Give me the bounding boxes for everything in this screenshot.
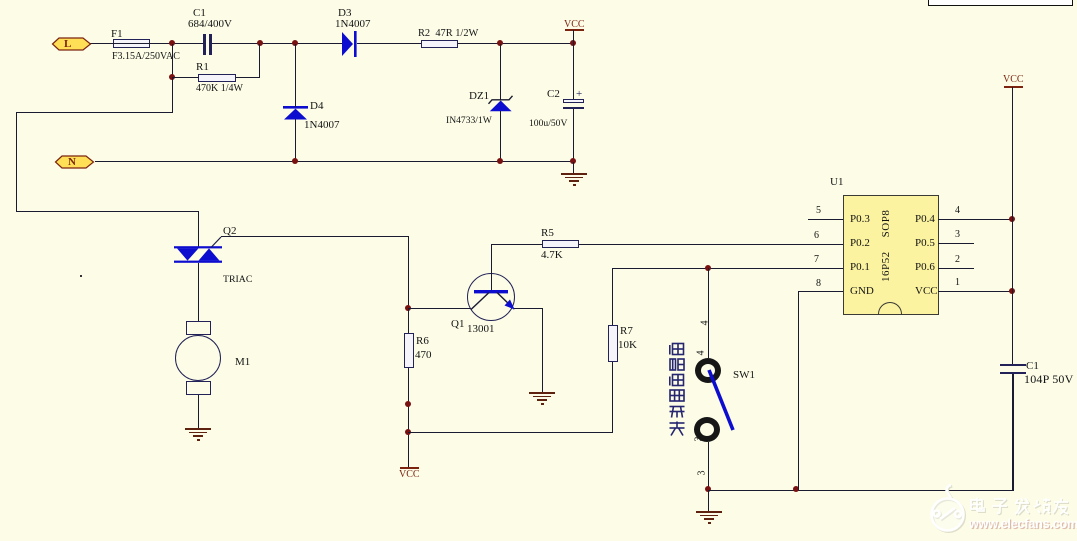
power VCC bottom: [400, 467, 419, 469]
label P0.1: [850, 262, 870, 273]
wire: triac gate diagonal: [211, 236, 223, 248]
resistor R6: [404, 333, 414, 368]
label SOP8 rotated: [881, 209, 892, 238]
wire: junction to Q1: [408, 308, 471, 309]
node: junction R1 right branch: [257, 40, 263, 46]
IC pin2 stub: [938, 268, 974, 269]
wire: gate horizontal: [221, 236, 409, 237]
label D4: [310, 101, 323, 112]
node: SW1 branch: [705, 265, 711, 271]
wire: left drop from R1 junction: [172, 78, 173, 112]
fuse F1: [113, 39, 150, 48]
label SW1 pin4b: [697, 351, 707, 356]
label SW1 pin3a: [695, 437, 705, 442]
wire: down to triac Q2: [198, 211, 199, 247]
wire: R7 to pin7: [612, 268, 843, 269]
node: N/C2/gnd: [570, 158, 576, 164]
label GND: [850, 286, 874, 297]
node: N/D4: [292, 158, 298, 164]
label C2: [547, 89, 560, 100]
wire: R6 top: [408, 308, 409, 333]
wire: D3 to R2: [357, 43, 421, 44]
label M1: [235, 357, 250, 368]
capacitor C2 electrolytic: [563, 99, 584, 103]
capacitor C1 right: [1000, 364, 1026, 366]
wire: gate vertical down: [408, 236, 409, 308]
IC pin8 stub: [798, 291, 843, 292]
node: pin1/VCC line: [1009, 288, 1015, 294]
label R7: [620, 326, 633, 337]
label C1 right: [1026, 361, 1039, 372]
label 16P52 rotated: [881, 253, 892, 282]
switch SW1 lever: [705, 366, 737, 434]
label SW1 pin4a: [701, 321, 711, 326]
node: pin4/VCC line: [1009, 216, 1015, 222]
capacitor C1: [203, 34, 206, 55]
label SW1 pin3b: [698, 471, 708, 476]
node: SW1/gnd rail: [705, 486, 711, 492]
label pin4: [955, 206, 960, 216]
label Q1 value: [467, 324, 495, 335]
label P0.2: [850, 238, 870, 249]
power VCC top: [565, 29, 584, 31]
wire: VCC right vertical: [1012, 87, 1013, 364]
diode D4: [283, 106, 308, 120]
node: pin8 drop: [793, 486, 799, 492]
IC pin3 stub: [938, 243, 974, 244]
label P0.5: [915, 238, 935, 249]
wire: DZ1 top: [500, 44, 501, 100]
node: junction DZ1 branch: [497, 40, 503, 46]
label D4 value: [304, 120, 339, 131]
label switch chinese 过胶检测开关: [668, 342, 686, 438]
resistor R5: [542, 240, 579, 248]
wire: R5 right to pin6: [579, 244, 843, 245]
wire: horizontal to far left: [16, 112, 173, 113]
resistor R2: [421, 40, 458, 48]
label SW1: [733, 370, 755, 381]
transistor Q1: [467, 273, 515, 321]
wire: C2 top: [573, 44, 574, 99]
label F1: [111, 29, 123, 40]
motor M1: [186, 321, 211, 335]
node: gate/R6/Q1 base junction: [405, 305, 411, 311]
label R1 value: [196, 84, 243, 94]
wire: Q1 base up: [491, 244, 492, 290]
zener DZ1: [487, 93, 514, 113]
watermark logo: [925, 483, 985, 541]
label F1 value: [112, 52, 180, 62]
wire: R1 right to rail: [236, 77, 260, 78]
wire: N rail: [95, 161, 574, 162]
label C2 plus: [576, 89, 582, 100]
IC U1 notch: [878, 302, 902, 314]
label DZ1: [469, 91, 489, 102]
connector L text: [64, 39, 71, 50]
wire: R7 top: [612, 268, 613, 325]
connector L: [52, 37, 92, 51]
wire: far-left vertical: [16, 112, 17, 212]
triac Q2: [174, 245, 223, 264]
wire: L to F1: [90, 43, 114, 44]
wire: SW1 top: [708, 268, 709, 358]
IC pin5 stub: [808, 219, 843, 220]
connector N: [55, 155, 95, 169]
label U1: [830, 177, 843, 188]
label Q1: [451, 319, 464, 330]
node: R6/R7 bottom rail: [405, 429, 411, 435]
node: junction D4 branch: [292, 40, 298, 46]
wire: emitter down: [542, 308, 543, 392]
label P0.6: [915, 262, 935, 273]
wire: D4 branch top: [295, 44, 296, 107]
label DZ1 value: [446, 116, 492, 126]
node: junction L/F1/R1 branch: [169, 40, 175, 46]
watermark text 电子发烧友: [968, 497, 1072, 516]
wire: R2 to VCC node: [458, 43, 575, 44]
resistor R7: [608, 325, 618, 362]
ground under M1: [185, 428, 211, 430]
title block box top right: [928, 0, 1073, 6]
wire: R6 bottom to VCC: [408, 368, 409, 467]
label R1: [196, 62, 209, 73]
wire: R1 branch vertical from L junction: [172, 44, 173, 78]
switch SW1 contact top: [695, 358, 721, 383]
IC U1 body: [843, 195, 939, 315]
label pin7: [814, 255, 819, 265]
label R6 value: [415, 350, 432, 361]
label pin8: [816, 279, 821, 289]
label VCC pin: [915, 286, 938, 297]
stray dot: [80, 275, 82, 277]
node: N/DZ1: [497, 158, 503, 164]
ground under SW1: [708, 490, 709, 511]
node: junction VCC/C2: [570, 40, 576, 46]
ground under C2: [573, 162, 574, 173]
label P0.4: [915, 214, 935, 225]
wire: motor to ground: [198, 395, 199, 428]
IC pin4 wire: [938, 219, 1013, 220]
ground under Q1: [529, 392, 555, 394]
wire: SW1 bottom: [708, 442, 709, 490]
wire: triac to motor: [198, 263, 199, 321]
wire: pin8 down to gnd rail: [798, 291, 799, 490]
wire: bottom rail R6-R7: [408, 432, 613, 433]
label pin6: [814, 231, 819, 241]
wire: bottom gnd rail: [708, 490, 1014, 492]
wire: junction to R1: [172, 77, 198, 78]
label pin2: [955, 255, 960, 265]
label R7 value: [618, 340, 637, 351]
wire: D4 branch bottom: [295, 119, 296, 161]
label R5 value: [541, 250, 563, 261]
watermark url: [969, 518, 1077, 531]
wire: Q1 emitter right: [514, 308, 543, 309]
label TRIAC: [223, 275, 252, 285]
label C1: [193, 8, 206, 19]
label pin1: [955, 278, 960, 288]
connector N text: [68, 157, 76, 168]
wire: R7 bottom: [612, 362, 613, 433]
node: junction R1 left: [169, 74, 175, 80]
label R6: [416, 336, 429, 347]
wire: C1 to D3: [212, 43, 343, 44]
wire: horizontal to triac column: [16, 211, 198, 212]
label R2: [418, 29, 478, 39]
label D3: [338, 8, 351, 19]
label C2 value: [529, 119, 567, 129]
label C1 right value: [1024, 373, 1074, 385]
switch SW1 contact bottom: [694, 417, 720, 442]
label R5: [541, 228, 554, 239]
resistor R1: [198, 74, 236, 82]
node: on R6 line: [405, 401, 411, 407]
power VCC right: [1003, 75, 1024, 85]
label D3 value: [335, 19, 370, 30]
label C1 value: [188, 19, 232, 30]
wire: F1 to C1: [150, 43, 204, 44]
wire: C1 bottom to gnd rail: [1012, 374, 1014, 491]
diode D3: [342, 31, 358, 57]
wire: C2 bottom: [573, 109, 574, 162]
label pin5: [816, 206, 821, 216]
IC pin1 wire: [938, 291, 1013, 292]
label P0.3: [850, 214, 870, 225]
wire: DZ1 bottom: [500, 111, 501, 161]
label Q2: [223, 226, 236, 237]
label pin3: [955, 230, 960, 240]
wire: R5 left: [491, 244, 543, 245]
